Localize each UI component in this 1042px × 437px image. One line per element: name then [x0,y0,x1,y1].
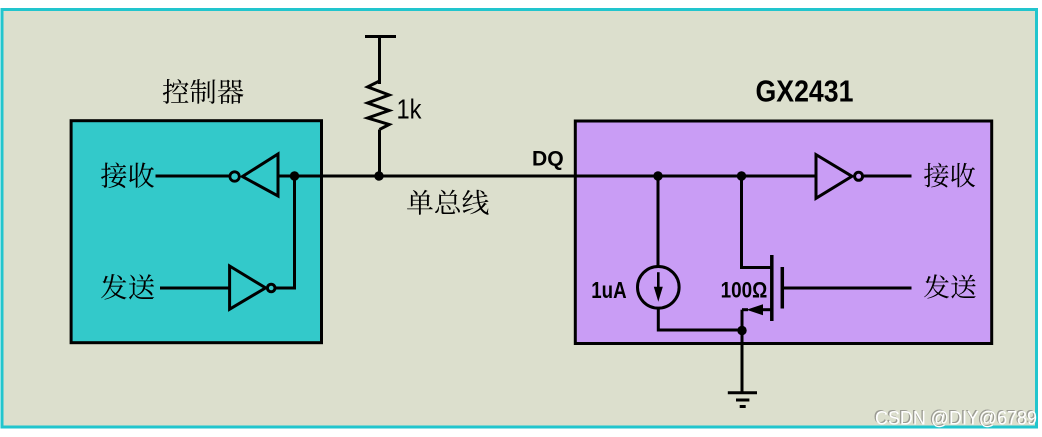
label receive-left 接收 [101,162,154,187]
svg-text:CSDN @DIY@6789: CSDN @DIY@6789 [875,408,1037,430]
wire gate to send-right [784,287,912,290]
node junction bus/resistor [374,171,383,180]
node junction source/current-source/ground [737,326,746,335]
label bus 单总线 [407,190,489,215]
label send-right 发送 [924,274,976,298]
wire feedback send output to bus [276,176,295,288]
svg-text:GX2431: GX2431 [756,74,854,109]
svg-text:1uA: 1uA [591,277,626,303]
svg-text:1k: 1k [397,94,423,125]
ground [728,393,757,407]
node junction bus/mosfet-drain [737,171,746,180]
wire receive-left input [156,175,231,178]
svg-text:DQ: DQ [532,146,564,170]
svg-text:100Ω: 100Ω [721,277,768,302]
node junction bus/current-source [653,171,662,180]
wire send-left input [160,287,230,290]
wire to ground [741,331,744,393]
watermark CSDN @DIY@6789 [874,406,1037,429]
wire receive-right output [864,175,912,178]
buffer U3 receive (points right) [816,155,863,199]
controller box [71,121,321,343]
IC box GX2431 [575,121,991,344]
label controller 控制器 [163,79,244,104]
transistor Q1 mosfet [740,176,782,331]
inverter U1 receive (points left) [230,154,278,196]
current source I1 1uA [638,267,680,309]
wire current source bottom lead [658,308,742,330]
resistor R 1k zigzag [368,81,390,130]
label receive-right 接收 [924,163,975,188]
wire current source top lead [657,176,660,267]
power supply T-bar [365,37,396,85]
buffer U2 send (points right) [230,266,275,309]
wire resistor bottom lead [378,130,381,177]
label send-left 发送 [101,274,154,300]
wire bus DQ horizontal [278,175,816,178]
node junction on bus at controller output [290,171,299,180]
